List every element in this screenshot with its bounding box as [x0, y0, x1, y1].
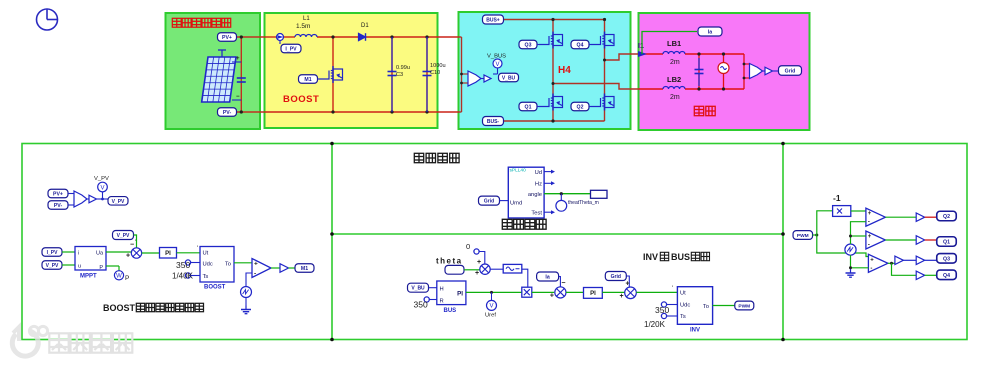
- svg-text:PV-: PV-: [54, 203, 63, 209]
- svg-text:350: 350: [176, 260, 190, 270]
- svg-text:Uref: Uref: [485, 313, 496, 319]
- svg-text:Ut: Ut: [203, 251, 209, 257]
- svg-text:R: R: [440, 299, 444, 305]
- svg-text:M1: M1: [301, 266, 308, 272]
- svg-text:Grid: Grid: [484, 199, 494, 205]
- svg-text:PWM: PWM: [738, 304, 750, 310]
- svg-text:1/40K: 1/40K: [172, 272, 194, 281]
- svg-text:PI: PI: [457, 291, 463, 298]
- svg-text:Ua: Ua: [96, 251, 104, 257]
- svg-text:INV: INV: [690, 328, 700, 334]
- svg-text:': ': [197, 246, 198, 252]
- svg-text:': ': [672, 286, 673, 292]
- svg-text:INV: INV: [643, 252, 658, 262]
- svg-text:LB1: LB1: [667, 39, 681, 48]
- svg-text:2m: 2m: [670, 59, 680, 66]
- svg-text:To: To: [225, 262, 231, 268]
- svg-text:Hz: Hz: [535, 182, 542, 188]
- svg-text:-: -: [868, 220, 870, 226]
- svg-text:Q2: Q2: [577, 105, 584, 111]
- svg-text:Ut: Ut: [680, 290, 686, 296]
- svg-text:V_PV: V_PV: [46, 263, 59, 269]
- svg-text:BUS+: BUS+: [486, 18, 500, 24]
- svg-text:V_BU: V_BU: [411, 286, 425, 292]
- svg-text:+: +: [868, 211, 872, 217]
- svg-text:BUS-: BUS-: [487, 119, 500, 125]
- svg-text:BUS: BUS: [671, 252, 690, 262]
- svg-text:sPLL40: sPLL40: [510, 168, 527, 174]
- svg-text:−: −: [236, 94, 240, 100]
- svg-text:Umd: Umd: [510, 200, 522, 206]
- svg-text:Q4: Q4: [577, 43, 584, 49]
- svg-text:Grid: Grid: [611, 274, 621, 280]
- svg-text:Ud: Ud: [535, 170, 542, 176]
- svg-text:I_PV: I_PV: [47, 250, 59, 256]
- svg-text:1.5m: 1.5m: [296, 23, 310, 30]
- svg-text:-1: -1: [833, 193, 841, 203]
- svg-text:PWM: PWM: [797, 233, 809, 239]
- svg-text:Q4: Q4: [943, 273, 950, 279]
- svg-text:Q1: Q1: [943, 240, 950, 246]
- svg-text:P: P: [125, 275, 129, 282]
- svg-text:2m: 2m: [670, 94, 680, 101]
- svg-text:Grid: Grid: [785, 69, 796, 75]
- svg-text:Udc: Udc: [203, 262, 213, 268]
- svg-text:+: +: [625, 280, 629, 287]
- svg-text:-: -: [868, 243, 870, 249]
- svg-text:V_PV: V_PV: [117, 233, 130, 239]
- svg-text:To: To: [703, 304, 709, 310]
- svg-text:V: V: [489, 304, 493, 310]
- svg-text:Ia: Ia: [708, 30, 712, 36]
- svg-text:I_PV: I_PV: [285, 47, 297, 53]
- svg-text:+: +: [550, 292, 554, 299]
- svg-text:V_PV: V_PV: [94, 176, 109, 182]
- svg-text:V: V: [100, 185, 104, 191]
- svg-text:u: u: [78, 264, 81, 270]
- svg-text:BUS: BUS: [444, 308, 457, 314]
- svg-text:Q3: Q3: [943, 256, 950, 262]
- svg-text:BOOST: BOOST: [283, 94, 319, 105]
- svg-text:Q1: Q1: [525, 105, 532, 111]
- svg-text:V_BU: V_BU: [502, 76, 516, 82]
- svg-text:BOOST: BOOST: [103, 303, 136, 313]
- svg-text:Ts: Ts: [680, 314, 686, 320]
- svg-text:W: W: [116, 274, 122, 280]
- svg-text:−: −: [561, 280, 565, 287]
- svg-text:H: H: [440, 287, 444, 293]
- svg-text:+: +: [475, 270, 479, 277]
- svg-text:Test: Test: [531, 211, 542, 217]
- svg-text:PI: PI: [165, 251, 171, 257]
- svg-text:Udc: Udc: [680, 303, 690, 309]
- svg-text:V: V: [495, 62, 499, 68]
- svg-text:MPPT: MPPT: [80, 274, 97, 280]
- svg-text:LB2: LB2: [667, 75, 681, 84]
- svg-text:−: −: [130, 242, 134, 249]
- svg-text:PV-: PV-: [223, 110, 232, 116]
- svg-text:1000u: 1000u: [430, 63, 446, 69]
- svg-text:': ': [135, 240, 136, 246]
- svg-text:M1: M1: [304, 77, 311, 83]
- svg-text:0.99u: 0.99u: [396, 65, 410, 71]
- svg-text:+: +: [254, 261, 258, 268]
- svg-text:V_PV: V_PV: [112, 199, 125, 205]
- svg-text:0: 0: [466, 242, 470, 251]
- svg-text:+: +: [126, 253, 130, 260]
- svg-text:+: +: [870, 257, 874, 263]
- svg-text:Q2: Q2: [943, 214, 950, 220]
- svg-text:BOOST: BOOST: [204, 285, 226, 291]
- svg-text:Q3: Q3: [525, 43, 532, 49]
- svg-text:D1: D1: [361, 23, 369, 29]
- svg-text:H4: H4: [558, 65, 571, 76]
- svg-text:350: 350: [414, 300, 428, 310]
- svg-text:-: -: [870, 266, 872, 272]
- svg-text:i: i: [78, 251, 79, 257]
- svg-text:+: +: [868, 234, 872, 240]
- svg-text:Ia: Ia: [545, 275, 549, 281]
- svg-text:C10: C10: [430, 70, 440, 76]
- svg-text:angle: angle: [528, 192, 542, 198]
- svg-text:Ts: Ts: [203, 274, 209, 280]
- svg-text:V_BUS: V_BUS: [487, 54, 506, 60]
- svg-text:I1: I1: [638, 43, 644, 50]
- svg-text:theta: theta: [436, 257, 463, 266]
- svg-text:1/20K: 1/20K: [644, 320, 666, 329]
- svg-text:PI: PI: [590, 291, 596, 297]
- svg-text:L1: L1: [303, 16, 310, 22]
- svg-text:PV+: PV+: [53, 192, 63, 198]
- svg-text:350: 350: [655, 305, 669, 315]
- svg-text:+: +: [619, 293, 623, 300]
- svg-text:theatTheta_m: theatTheta_m: [568, 200, 599, 206]
- svg-text:PV+: PV+: [222, 35, 232, 41]
- svg-text:P: P: [99, 265, 103, 271]
- svg-text:+: +: [236, 56, 240, 62]
- svg-text:C3: C3: [396, 72, 403, 78]
- svg-text:+: +: [477, 259, 481, 266]
- svg-text:-: -: [254, 271, 256, 278]
